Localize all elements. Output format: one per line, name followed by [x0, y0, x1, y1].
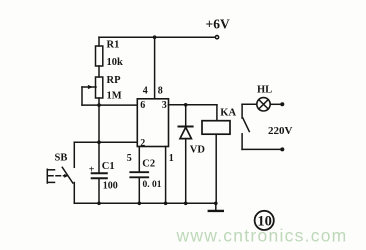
svg-text:8: 8: [158, 86, 163, 97]
diode VD: [179, 127, 193, 139]
svg-text:2: 2: [140, 138, 145, 149]
wire R1 top lead: [98, 37, 100, 46]
wire timing node vertical RP to C1: [98, 98, 100, 173]
wire SB upper stub: [73, 142, 75, 167]
switch SB blade: [62, 167, 73, 183]
svg-text:VD: VD: [190, 144, 206, 155]
switch KA contact blade: [243, 118, 250, 132]
wire C2 lower lead: [138, 177, 140, 203]
svg-text:100: 100: [103, 180, 118, 191]
wire KA contact upper stub: [241, 104, 243, 118]
ground: [209, 203, 223, 211]
node figure number 10: [255, 211, 274, 230]
svg-text:6: 6: [140, 100, 145, 111]
node junction pin3/VD: [184, 103, 188, 107]
svg-text:220V: 220V: [268, 125, 293, 137]
wire pin3 output net: [169, 104, 217, 106]
svg-text:www.cntronics.com: www.cntronics.com: [176, 226, 348, 246]
wire KA contact lower stub: [241, 134, 243, 150]
node junction rail/KA-ground: [214, 202, 218, 206]
terminal 220V bottom: [280, 147, 284, 151]
wire VD upper lead: [185, 105, 187, 127]
capacitor C2 pin5 lead: [138, 147, 140, 173]
node junction pin6/timing: [97, 103, 101, 107]
svg-text:KA: KA: [220, 107, 236, 118]
svg-text:C1: C1: [102, 161, 115, 172]
wire pin6 net: [82, 104, 137, 106]
svg-text:0. 01: 0. 01: [143, 180, 162, 190]
node junction rail/pin4-8: [153, 35, 157, 39]
node junction rail/C1: [97, 202, 101, 206]
svg-text:10k: 10k: [107, 57, 124, 68]
terminal 220V top: [280, 102, 284, 106]
terminal +6V: [215, 36, 218, 39]
wire SB lower stub: [73, 183, 75, 204]
potentiometer RP: [96, 77, 103, 98]
wire pins 4,8 supply lead: [154, 37, 156, 99]
relay coil KA: [202, 121, 230, 135]
svg-text:R1: R1: [107, 40, 120, 51]
node junction pin2/timing: [97, 140, 101, 144]
node junction rail/pin1: [164, 202, 168, 206]
wire top +6V rail: [99, 36, 215, 38]
wire VD lower lead: [185, 139, 187, 204]
wire RP wiper arm: [82, 85, 96, 105]
switch SB pushbutton head: [47, 169, 68, 183]
svg-text:3: 3: [162, 100, 167, 111]
svg-text:1M: 1M: [107, 91, 122, 102]
wire R1-RP lead: [98, 66, 100, 77]
lamp HL: [257, 98, 270, 111]
svg-text:4: 4: [143, 86, 148, 97]
svg-text:1: 1: [169, 153, 174, 164]
wire pin1 ground lead: [165, 147, 167, 204]
svg-text:RP: RP: [107, 75, 122, 86]
node junction rail/VD: [184, 202, 188, 206]
wire lamp line left: [242, 103, 257, 105]
node junction rail/C2: [138, 202, 142, 206]
svg-text:SB: SB: [55, 153, 68, 164]
wire bottom ground rail: [74, 202, 216, 204]
svg-text:5: 5: [127, 153, 132, 164]
wire C1 lower lead: [98, 178, 100, 203]
capacitor C2: [130, 172, 148, 177]
wire KA coil lower lead: [215, 134, 217, 203]
svg-text:C2: C2: [142, 159, 155, 170]
op-amp U1 555 timer box: [137, 99, 168, 147]
wire pin2 net: [74, 141, 137, 143]
capacitor C1: [92, 173, 107, 178]
svg-text:+6V: +6V: [206, 17, 230, 32]
wire lamp line right: [270, 103, 281, 105]
resistor R1: [96, 46, 103, 66]
wire 220V bottom line: [242, 148, 281, 150]
wire KA coil upper lead: [216, 105, 218, 121]
svg-text:+: +: [89, 164, 95, 175]
svg-text:HL: HL: [257, 84, 272, 95]
